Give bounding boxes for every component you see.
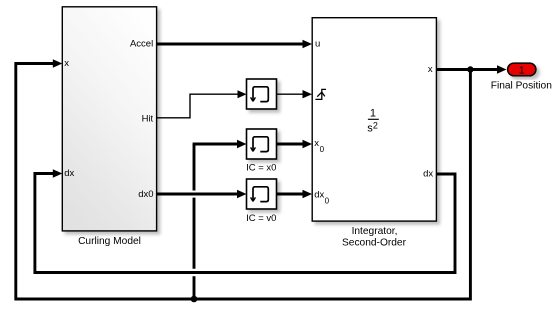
junction dot on x output: [467, 66, 473, 72]
svg-text:1: 1: [370, 107, 376, 119]
svg-text:Final Position: Final Position: [491, 81, 552, 92]
IC block 1 (top): [247, 79, 277, 109]
subsystem Curling Model: [62, 7, 156, 231]
block Integrator Second-Order: [312, 18, 436, 221]
IC block 3 (bottom): [247, 179, 277, 209]
svg-text:Curling Model: Curling Model: [78, 236, 141, 247]
wire x output to outport and feedback: [16, 59, 507, 299]
svg-text:0: 0: [325, 196, 330, 205]
wire branch to IC2 (from x feedback): [193, 140, 247, 299]
svg-text:1: 1: [519, 64, 525, 76]
outport 1 Final Position: [508, 63, 536, 76]
svg-text:dx: dx: [64, 168, 74, 179]
wire Accel to u: [157, 40, 312, 48]
svg-text:x: x: [64, 58, 69, 69]
wire IC3 to dx0 port: [277, 190, 313, 198]
svg-text:x: x: [428, 64, 433, 75]
IC block 2 (middle): [247, 129, 277, 159]
svg-text:Second-Order: Second-Order: [342, 238, 407, 249]
svg-text:dx: dx: [314, 189, 324, 200]
svg-text:x: x: [314, 138, 319, 149]
junction dot on x feedback: [191, 296, 198, 303]
svg-text:IC = x0: IC = x0: [246, 163, 276, 174]
svg-text:dx0: dx0: [138, 189, 153, 200]
transfer function 1/s^2: [367, 107, 379, 134]
svg-text:IC = v0: IC = v0: [246, 213, 276, 224]
svg-text:Accel: Accel: [130, 39, 153, 50]
svg-text:Hit: Hit: [142, 113, 154, 124]
svg-text:dx: dx: [423, 169, 433, 180]
svg-text:0: 0: [320, 145, 325, 154]
wire IC1 to reset port: [277, 90, 313, 98]
svg-text:Integrator,: Integrator,: [352, 226, 398, 237]
reset trigger icon: [315, 89, 326, 99]
wire Hit to IC1: [157, 90, 247, 118]
svg-text:2: 2: [373, 120, 378, 130]
wire dx output feedback: [35, 169, 455, 272]
wire dx0 to IC3: [157, 190, 247, 198]
wire IC2 to x0 port: [277, 140, 313, 148]
svg-text:u: u: [315, 39, 320, 50]
